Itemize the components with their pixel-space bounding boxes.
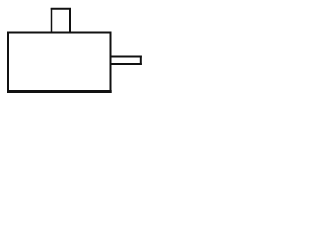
shaft [111,56,142,66]
motor M1 body [7,32,112,93]
terminal box [51,8,71,32]
